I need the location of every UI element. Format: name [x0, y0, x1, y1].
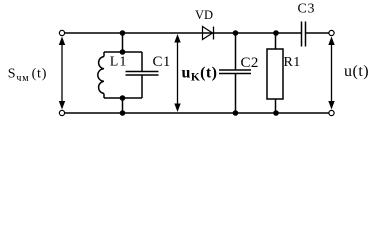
- svg-text:C2: C2: [241, 55, 259, 71]
- svg-text:C1: C1: [153, 54, 171, 70]
- svg-text:u(t): u(t): [344, 63, 369, 80]
- svg-text:VD: VD: [195, 8, 213, 22]
- svg-text:L1: L1: [110, 55, 128, 70]
- svg-text:R1: R1: [284, 55, 301, 70]
- svg-text:C3: C3: [298, 2, 316, 17]
- svg-text:uK(t): uK(t): [182, 65, 218, 84]
